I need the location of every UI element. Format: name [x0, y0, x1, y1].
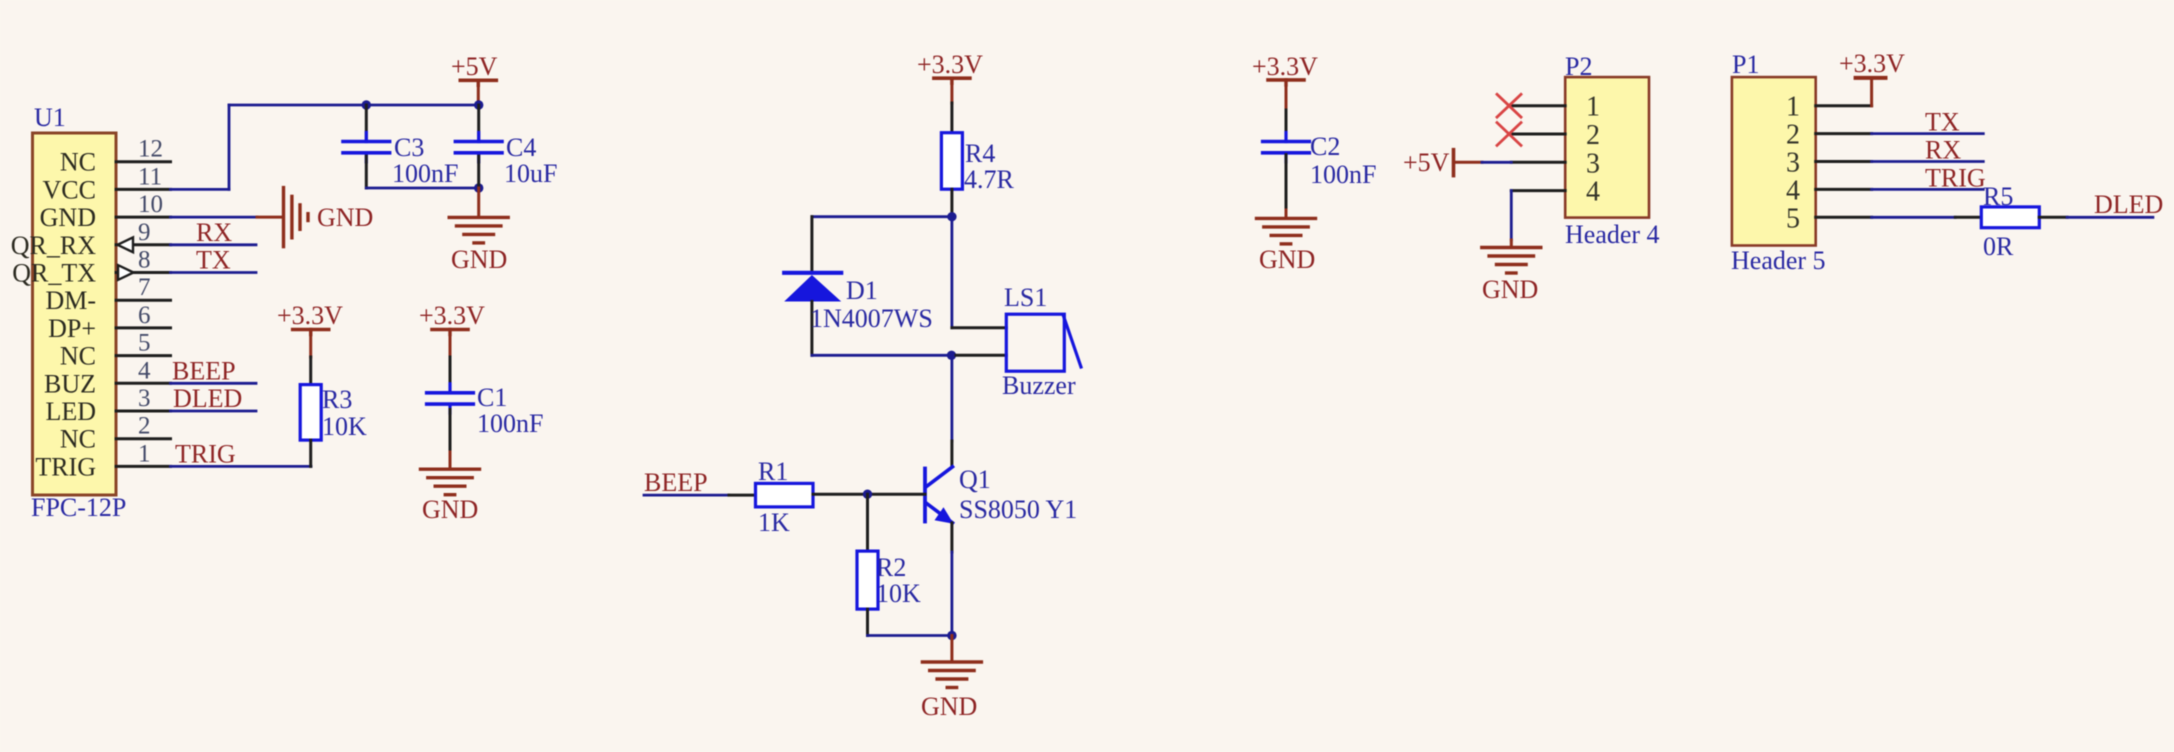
svg-text:GND: GND — [422, 495, 478, 524]
svg-text:QR_RX: QR_RX — [11, 231, 96, 260]
svg-text:C4: C4 — [506, 133, 536, 162]
svg-text:100nF: 100nF — [1310, 160, 1376, 189]
svg-text:5: 5 — [1786, 203, 1800, 234]
svg-text:R5: R5 — [1983, 182, 2013, 211]
svg-text:2: 2 — [138, 413, 151, 440]
svg-text:9: 9 — [138, 219, 151, 246]
svg-text:P1: P1 — [1732, 50, 1759, 79]
svg-text:Buzzer: Buzzer — [1002, 371, 1076, 400]
svg-text:10K: 10K — [322, 412, 367, 441]
svg-text:TRIG: TRIG — [175, 439, 236, 468]
svg-text:C1: C1 — [477, 383, 507, 412]
svg-text:+3.3V: +3.3V — [917, 50, 983, 79]
svg-text:+3.3V: +3.3V — [1839, 49, 1905, 78]
svg-text:+3.3V: +3.3V — [277, 301, 343, 330]
svg-text:5: 5 — [138, 330, 151, 357]
svg-text:VCC: VCC — [43, 175, 96, 204]
svg-text:DP+: DP+ — [48, 314, 96, 343]
svg-text:2: 2 — [1786, 120, 1800, 151]
svg-text:TX: TX — [1925, 108, 1960, 137]
svg-text:+3.3V: +3.3V — [419, 301, 485, 330]
svg-text:NC: NC — [60, 425, 96, 454]
svg-text:10K: 10K — [876, 579, 921, 608]
svg-text:6: 6 — [138, 302, 151, 329]
svg-text:D1: D1 — [846, 276, 878, 305]
svg-text:8: 8 — [138, 247, 151, 274]
svg-text:100nF: 100nF — [477, 409, 543, 438]
svg-text:10: 10 — [138, 191, 163, 218]
svg-text:QR_TX: QR_TX — [12, 259, 96, 288]
svg-text:12: 12 — [138, 136, 163, 163]
svg-text:Q1: Q1 — [959, 465, 991, 494]
svg-text:U1: U1 — [34, 103, 66, 132]
svg-text:3: 3 — [138, 385, 151, 412]
svg-text:1K: 1K — [758, 508, 790, 537]
svg-text:Header 5: Header 5 — [1731, 246, 1826, 275]
svg-text:0R: 0R — [1983, 232, 2014, 261]
svg-text:3: 3 — [1586, 148, 1600, 179]
svg-text:TX: TX — [196, 246, 231, 275]
svg-text:4: 4 — [1586, 177, 1600, 208]
svg-text:GND: GND — [317, 203, 373, 232]
svg-text:1: 1 — [138, 440, 151, 467]
svg-text:7: 7 — [138, 274, 151, 301]
svg-text:11: 11 — [138, 163, 162, 190]
svg-text:BEEP: BEEP — [644, 468, 708, 497]
svg-text:10uF: 10uF — [504, 159, 557, 188]
svg-text:1: 1 — [1586, 92, 1600, 123]
svg-text:1N4007WS: 1N4007WS — [810, 304, 933, 333]
svg-text:TRIG: TRIG — [35, 452, 96, 481]
svg-text:DLED: DLED — [2094, 190, 2163, 219]
svg-text:100nF: 100nF — [392, 159, 458, 188]
svg-text:R2: R2 — [876, 553, 906, 582]
svg-text:GND: GND — [1259, 245, 1315, 274]
svg-text:R3: R3 — [322, 385, 352, 414]
svg-text:4.7R: 4.7R — [964, 165, 1015, 194]
svg-text:2: 2 — [1586, 120, 1600, 151]
svg-text:+5V: +5V — [451, 52, 498, 81]
svg-text:R1: R1 — [758, 457, 788, 486]
svg-text:4: 4 — [138, 357, 151, 384]
svg-text:3: 3 — [1786, 148, 1800, 179]
svg-text:C3: C3 — [394, 133, 424, 162]
svg-text:DLED: DLED — [173, 384, 242, 413]
svg-text:LED: LED — [45, 397, 96, 426]
svg-text:Header 4: Header 4 — [1565, 220, 1660, 249]
svg-text:R4: R4 — [965, 139, 995, 168]
svg-text:DM-: DM- — [45, 286, 96, 315]
svg-text:NC: NC — [60, 148, 96, 177]
svg-text:BUZ: BUZ — [44, 369, 96, 398]
svg-text:GND: GND — [921, 692, 977, 721]
svg-text:GND: GND — [451, 245, 507, 274]
svg-text:RX: RX — [196, 218, 232, 247]
svg-text:SS8050 Y1: SS8050 Y1 — [959, 495, 1077, 524]
svg-text:NC: NC — [60, 342, 96, 371]
svg-text:LS1: LS1 — [1004, 283, 1047, 312]
svg-text:FPC-12P: FPC-12P — [31, 493, 126, 522]
svg-text:RX: RX — [1925, 136, 1961, 165]
svg-text:1: 1 — [1786, 92, 1800, 123]
svg-text:GND: GND — [40, 203, 96, 232]
svg-text:TRIG: TRIG — [1925, 163, 1986, 192]
svg-text:GND: GND — [1482, 275, 1538, 304]
svg-text:BEEP: BEEP — [172, 356, 236, 385]
svg-text:+3.3V: +3.3V — [1252, 52, 1318, 81]
svg-text:+5V: +5V — [1403, 148, 1450, 177]
svg-text:C2: C2 — [1310, 132, 1340, 161]
svg-text:4: 4 — [1786, 175, 1800, 206]
